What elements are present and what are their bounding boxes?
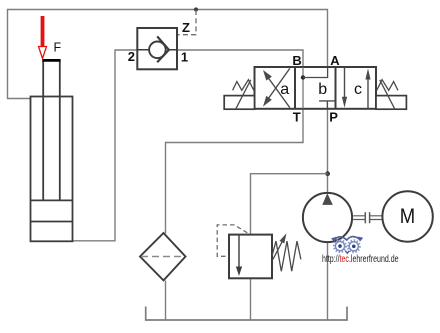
position b link to A [303, 67, 328, 77]
wire: filter to tank [165, 281, 167, 321]
svg-text:Z: Z [182, 20, 190, 35]
valve right return spring [377, 80, 398, 91]
valve left spring shelf [224, 96, 254, 110]
svg-text:P: P [329, 109, 338, 124]
cylinder piston [31, 200, 72, 221]
force arrow F (red) [41, 16, 45, 47]
filter dashed element [141, 256, 185, 258]
tank reservoir [146, 307, 347, 321]
pump [303, 193, 352, 242]
position a crossed arrow A-T [266, 68, 290, 102]
svg-text:B: B [292, 53, 301, 68]
node: junction dot in position b [301, 75, 305, 79]
directional valve position dividers [295, 67, 336, 109]
filter [140, 233, 186, 280]
electric motor M [382, 191, 432, 241]
valve left return spring [233, 80, 254, 91]
wire: valve port T down, left, down to filter [166, 109, 304, 234]
wire: check valve port 1 to valve port B [178, 50, 304, 67]
check valve internal flow line [137, 49, 177, 51]
cylinder piston rod [43, 61, 60, 200]
wire: relief valve outlet to tank [250, 279, 252, 321]
valve right spring shelf [376, 96, 406, 110]
svg-text:b: b [318, 81, 327, 98]
svg-text:c: c [354, 81, 362, 98]
relief valve spring [272, 241, 301, 271]
svg-text:A: A [330, 53, 340, 68]
watermark owl gears logo [331, 237, 363, 254]
wire: valve port P down to pump [327, 109, 329, 194]
check valve V1 body [137, 28, 177, 69]
position c down arrow [344, 68, 346, 100]
svg-text:F: F [54, 40, 62, 54]
directional valve 4/3 body [255, 67, 377, 109]
pump flow direction triangle [322, 193, 333, 205]
label M [400, 205, 415, 228]
node: junction on P line to relief valve [325, 171, 330, 176]
svg-text:T: T [293, 109, 301, 124]
relief valve internal arrow [238, 235, 240, 269]
svg-text:1: 1 [181, 49, 188, 64]
svg-text:M: M [400, 205, 415, 228]
cylinder body [31, 97, 73, 242]
check valve ball [149, 42, 166, 59]
svg-text:a: a [280, 81, 289, 98]
coupling bars [365, 212, 369, 223]
position a crossed arrow P-B [266, 74, 290, 108]
wire: pump suction from tank [327, 242, 329, 320]
relief valve adjustment arrow [273, 239, 284, 260]
position c up arrow [367, 78, 369, 109]
position b B-T through line [302, 67, 304, 109]
position b blocked port P [319, 101, 335, 109]
svg-text:2: 2 [128, 49, 135, 64]
wire: cylinder bottom port to check valve port 2 [73, 50, 138, 241]
check valve seat [157, 36, 169, 62]
wire: A-line rail (cylinder rod-side port, up left side, along top, down to valve port A) [8, 10, 328, 99]
node: Z pilot tap junction on top rail [194, 7, 198, 11]
relief valve pilot dashed line [217, 225, 247, 256]
svg-text:http://tec.lehrerfreund.de: http://tec.lehrerfreund.de [322, 253, 399, 265]
coupling shaft [353, 216, 381, 220]
wire: P line branch to relief valve inlet [251, 174, 328, 235]
cylinder rod end cap [42, 59, 60, 62]
relief valve body [229, 235, 272, 279]
watermark url text [322, 253, 399, 265]
wire: dashed pilot line Z to check valve [178, 10, 197, 35]
